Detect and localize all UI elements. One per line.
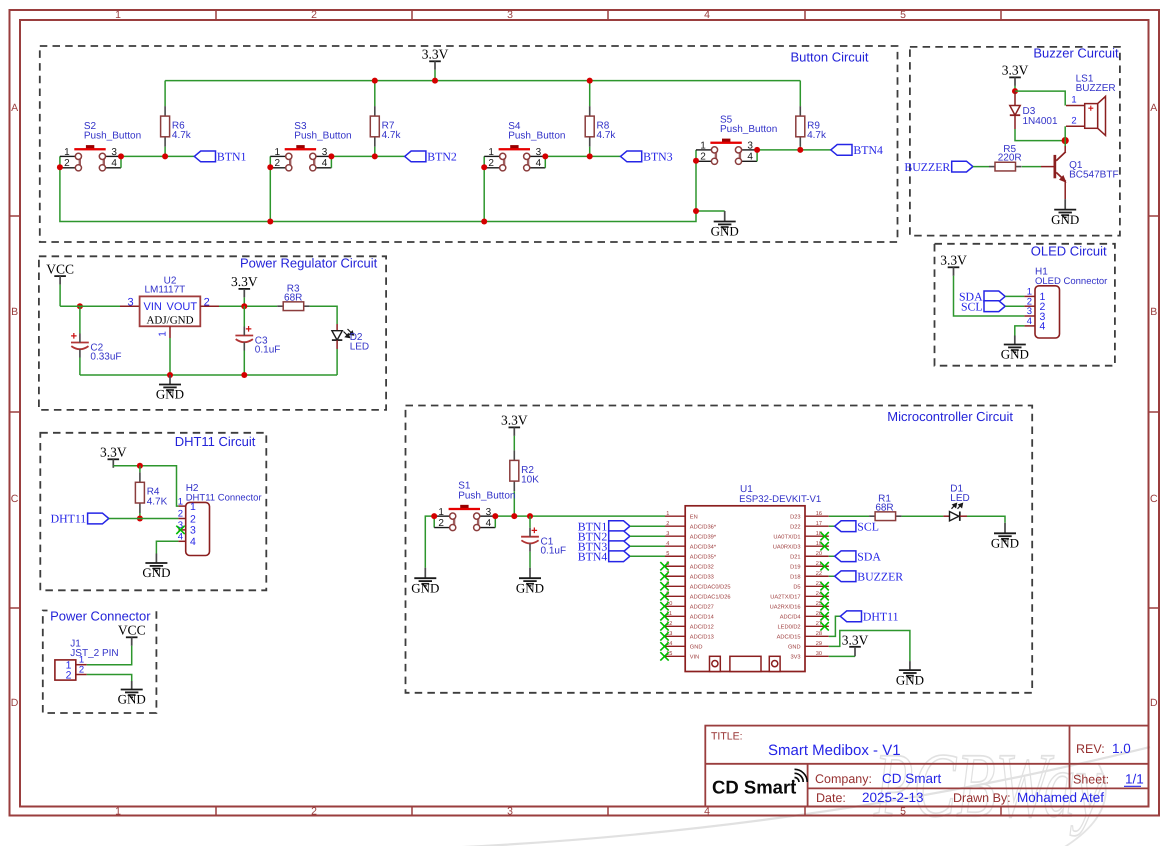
pin 27 LED0/D2 <box>805 625 829 627</box>
svg-text:4: 4 <box>190 536 196 548</box>
svg-text:VCC: VCC <box>46 261 74 276</box>
svg-text:ADC/D32: ADC/D32 <box>690 564 714 571</box>
svg-text:UA0TX/D1: UA0TX/D1 <box>773 534 800 541</box>
pin 14 GND <box>665 645 685 647</box>
net flag DHT11 output <box>829 616 841 636</box>
node R8 bottom <box>587 153 593 159</box>
wire BTN1 to pin 2 <box>630 525 665 527</box>
svg-text:3.3V: 3.3V <box>422 47 449 62</box>
svg-text:4: 4 <box>666 541 669 547</box>
pin 1 EN <box>665 515 685 517</box>
pin 26 ADC/D4 <box>805 615 829 617</box>
svg-text:+: + <box>245 324 251 336</box>
svg-text:ADC/D4: ADC/D4 <box>780 614 801 621</box>
svg-text:2: 2 <box>438 518 444 529</box>
wire EN <box>495 515 665 517</box>
wire pin17 to SCL <box>829 525 835 527</box>
svg-text:Button Circuit: Button Circuit <box>791 50 869 65</box>
svg-text:22: 22 <box>816 571 822 577</box>
ground OLED circuit <box>1014 336 1016 345</box>
no-connect H2 pin3 <box>176 526 184 534</box>
svg-text:DHT11 Connector: DHT11 Connector <box>186 492 262 503</box>
wire D23 to R1 <box>829 515 869 517</box>
wire D3 to junction <box>1015 129 1065 141</box>
wire pin29 GND <box>829 631 910 662</box>
svg-text:4: 4 <box>322 158 328 169</box>
wire H2 pin4 to ground <box>156 541 178 553</box>
node C3 bottom <box>241 372 247 378</box>
svg-text:4: 4 <box>486 518 492 529</box>
speaker LS1 BUZZER <box>1066 105 1085 107</box>
net flag BTN2 <box>405 151 426 162</box>
svg-text:BC547BTF: BC547BTF <box>1069 170 1118 181</box>
svg-text:ADJ/GND: ADJ/GND <box>146 314 193 326</box>
svg-text:1: 1 <box>438 507 444 518</box>
svg-text:3: 3 <box>507 805 513 817</box>
ground regulator circuit <box>169 375 171 385</box>
wire R4 bottom <box>139 513 141 519</box>
svg-text:3: 3 <box>486 507 492 518</box>
svg-text:2: 2 <box>190 513 196 525</box>
Power Regulator Circuit block border <box>39 256 386 410</box>
wire BTN2 to pin 3 <box>630 535 665 537</box>
svg-text:5: 5 <box>666 551 669 557</box>
net flag BUZZER output <box>829 575 835 577</box>
svg-text:D19: D19 <box>790 565 800 571</box>
wire R1 to D1 <box>902 515 944 517</box>
svg-text:ADC/DAC1/D26: ADC/DAC1/D26 <box>690 594 731 601</box>
node R4 bottom <box>137 516 143 522</box>
svg-text:ADC/D36*: ADC/D36* <box>690 524 717 531</box>
svg-text:GND: GND <box>711 224 739 239</box>
push button S1 <box>460 505 468 508</box>
svg-text:ADC/D14: ADC/D14 <box>690 614 714 621</box>
pin 16 D23 <box>805 515 829 517</box>
wire VCC to U2 <box>59 285 61 307</box>
push button S4 <box>510 145 518 148</box>
pin 23 D5 <box>805 585 829 587</box>
svg-text:Push_Button: Push_Button <box>720 124 777 135</box>
pin 25 UA2RX/D16 <box>805 605 829 607</box>
node gnd rail corner <box>693 208 699 214</box>
svg-text:1: 1 <box>190 501 196 513</box>
svg-text:D5: D5 <box>793 585 800 591</box>
node D3 bottom junction <box>1062 137 1069 144</box>
svg-text:BUZZER: BUZZER <box>904 160 950 174</box>
svg-text:10K: 10K <box>521 474 539 485</box>
svg-text:4.7k: 4.7k <box>807 130 827 141</box>
wire ADJ to gnd rail <box>169 338 171 375</box>
wire 3.3V to pin3 <box>954 276 1025 316</box>
svg-text:4: 4 <box>1040 321 1046 333</box>
wire R3 to D2 <box>310 306 337 324</box>
wire S2 pin2 down <box>60 167 696 221</box>
wire R8 to button row <box>589 147 591 157</box>
svg-text:1: 1 <box>700 141 706 152</box>
svg-text:4: 4 <box>178 532 183 543</box>
svg-text:ADC/D12: ADC/D12 <box>690 624 714 631</box>
svg-text:16: 16 <box>816 511 822 517</box>
svg-text:Push_Button: Push_Button <box>294 131 351 142</box>
wire S4 to BTN3 flag <box>545 155 620 157</box>
svg-text:4.7k: 4.7k <box>382 130 402 141</box>
node S4 gnd rail <box>481 219 487 225</box>
svg-text:B: B <box>11 306 18 318</box>
svg-text:D: D <box>11 697 19 709</box>
svg-text:+: + <box>71 331 77 343</box>
wire BTN4 to pin 5 <box>630 555 665 557</box>
svg-text:4: 4 <box>1027 316 1032 327</box>
svg-text:D: D <box>1150 697 1158 709</box>
svg-text:68R: 68R <box>284 292 302 303</box>
node S3 gnd rail <box>267 219 273 225</box>
pin 28 ADC/D15 <box>805 635 829 637</box>
title block border <box>705 726 1148 807</box>
node gnd rail <box>167 372 173 378</box>
microcontroller U1 ESP32-DEVKIT-V1 <box>685 506 805 672</box>
svg-text:68R: 68R <box>875 502 893 513</box>
svg-text:4.7k: 4.7k <box>597 130 617 141</box>
wire D1 to ground <box>967 516 1005 523</box>
svg-text:4: 4 <box>536 158 542 169</box>
resistor R1 <box>869 515 875 517</box>
svg-text:2: 2 <box>666 521 669 527</box>
push button S3 <box>296 145 304 148</box>
wire S4 pin2 down <box>483 167 485 221</box>
wire S1 to ground <box>425 516 434 568</box>
capacitor C1 0.1uF <box>529 516 531 528</box>
transistor Q1 BC547BTF <box>1054 155 1057 178</box>
svg-text:D23: D23 <box>790 515 800 521</box>
svg-text:3.3V: 3.3V <box>231 274 258 289</box>
svg-text:SCL: SCL <box>857 519 879 533</box>
svg-text:DHT11: DHT11 <box>51 512 87 526</box>
svg-text:BTN4: BTN4 <box>853 143 883 157</box>
svg-text:2025-2-13: 2025-2-13 <box>862 790 924 805</box>
node C1 top <box>527 513 533 519</box>
svg-text:SCL: SCL <box>961 299 983 313</box>
wire DHT11 to H2 pin2 <box>109 518 179 520</box>
svg-text:Power Regulator Circuit: Power Regulator Circuit <box>240 255 378 270</box>
pin 15 VIN <box>665 655 685 657</box>
node C2 top <box>77 303 83 309</box>
svg-text:2: 2 <box>204 296 210 308</box>
svg-text:1: 1 <box>115 805 121 817</box>
svg-text:1: 1 <box>64 147 70 158</box>
svg-text:4: 4 <box>747 152 753 163</box>
svg-text:ADC/D39*: ADC/D39* <box>690 534 717 541</box>
svg-text:GND: GND <box>991 536 1019 551</box>
esp32 mounting pad left <box>710 656 721 671</box>
node R2 bottom <box>511 513 517 519</box>
led D1 <box>943 515 949 517</box>
node 3.3V rail junction <box>432 78 438 84</box>
resistor R3 <box>277 305 283 307</box>
node S3 pin3 <box>328 153 334 159</box>
pin 7 ADC/D33 <box>665 575 685 577</box>
pin 6 ADC/D32 <box>665 565 685 567</box>
wire R7 to button row <box>374 147 376 157</box>
wire pin4 to ground <box>1015 326 1025 336</box>
pin 21 D19 <box>805 565 829 567</box>
wire BUZZER to R5 <box>973 166 989 168</box>
svg-text:TITLE:: TITLE: <box>711 731 743 743</box>
svg-text:3.3V: 3.3V <box>940 253 967 268</box>
svg-text:VIN: VIN <box>144 301 162 313</box>
net flag BTN1 <box>194 151 215 162</box>
svg-text:20: 20 <box>816 551 822 557</box>
svg-text:VOUT: VOUT <box>167 301 198 313</box>
node R4 top <box>137 463 143 469</box>
pin 12 ADC/D12 <box>665 625 685 627</box>
ground D1 <box>1004 523 1006 534</box>
wire SDA to pin1 <box>1005 295 1024 297</box>
wire SCL to pin2 <box>1005 305 1024 307</box>
node S2 pin2 <box>57 164 63 170</box>
wire S3 to BTN2 flag <box>331 155 404 157</box>
svg-text:1.0: 1.0 <box>1112 741 1131 756</box>
pin 20 D21 <box>805 555 829 557</box>
pin 3 ADC/D39* <box>665 535 685 537</box>
svg-text:30: 30 <box>816 651 822 657</box>
svg-text:1: 1 <box>488 147 494 158</box>
wire 3.3V to rail <box>434 70 436 81</box>
wire gnd branch <box>696 210 725 212</box>
ground S1 <box>424 568 426 579</box>
svg-text:CD Smart: CD Smart <box>712 777 796 798</box>
svg-text:3: 3 <box>322 147 328 158</box>
svg-text:BTN4: BTN4 <box>578 549 608 563</box>
svg-text:1: 1 <box>178 496 183 507</box>
svg-text:BTN3: BTN3 <box>643 150 673 164</box>
ground buzzer circuit <box>1064 199 1066 210</box>
svg-text:Buzzer Curcuit: Buzzer Curcuit <box>1033 46 1119 61</box>
pin 24 UA2TX/D17 <box>805 595 829 597</box>
node S3 pin2 <box>267 164 273 170</box>
resistor R2 <box>513 450 515 460</box>
ground C1 <box>529 568 531 579</box>
net flag BTN4 input <box>609 551 630 562</box>
resistor R5 <box>989 166 995 168</box>
svg-text:GND: GND <box>118 692 146 707</box>
ground pin29 <box>909 661 911 670</box>
wire speaker pin2 <box>1064 126 1066 140</box>
pin 22 D18 <box>805 575 829 577</box>
node R9 bottom <box>797 147 803 153</box>
svg-text:ADC/D13: ADC/D13 <box>690 634 714 641</box>
node S5 pin2 <box>693 158 699 164</box>
esp32 mounting pad right <box>769 656 780 671</box>
svg-text:BUZZER: BUZZER <box>857 569 903 583</box>
net flag BTN1 input <box>609 521 630 532</box>
wire J1 pin1 to VCC <box>87 646 132 665</box>
push button S5 <box>722 139 730 142</box>
svg-text:OLED Connector: OLED Connector <box>1035 276 1107 287</box>
ground power connector <box>131 681 133 690</box>
Button Circuit block border <box>40 46 898 242</box>
pin 11 ADC/D14 <box>665 615 685 617</box>
wire rail to R9 <box>799 81 801 107</box>
resistor R9 <box>799 106 801 116</box>
OLED Circuit block border <box>935 244 1115 366</box>
svg-text:3: 3 <box>127 296 133 308</box>
svg-text:LM1117T: LM1117T <box>145 285 186 296</box>
node S5 pin3 <box>754 147 760 153</box>
svg-text:GND: GND <box>156 387 184 402</box>
node 3.3V out <box>241 303 247 309</box>
svg-text:1: 1 <box>275 147 281 158</box>
node S4 pin2 <box>481 164 487 170</box>
wire S5 pin2 down <box>695 161 697 211</box>
svg-text:ADC/DAC0/D25: ADC/DAC0/D25 <box>690 584 731 591</box>
svg-text:2: 2 <box>1071 115 1076 126</box>
push button S2 <box>86 145 94 148</box>
svg-text:C: C <box>11 493 19 505</box>
net flag BTN3 input <box>609 541 630 552</box>
svg-text:3: 3 <box>536 147 542 158</box>
wire J1 pin2 to ground <box>87 675 132 682</box>
svg-text:28: 28 <box>816 631 822 637</box>
svg-text:4: 4 <box>111 158 117 169</box>
pin 4 ADC/D34* <box>665 545 685 547</box>
frame row ticks <box>10 215 21 217</box>
resistor R6 <box>164 106 166 116</box>
Microcontroller Circuit block border <box>406 406 1033 693</box>
wire 3.3V to H2 pin1 <box>113 466 178 506</box>
svg-text:Date:: Date: <box>816 791 846 805</box>
ground button circuit <box>724 211 726 222</box>
svg-text:LED: LED <box>950 493 969 504</box>
svg-text:220R: 220R <box>998 153 1022 164</box>
svg-text:A: A <box>1150 102 1157 114</box>
svg-text:4: 4 <box>704 9 710 21</box>
svg-text:Push_Button: Push_Button <box>458 490 515 501</box>
wire rail to R8 <box>589 81 591 107</box>
node S1 pin3 <box>492 513 498 519</box>
svg-text:D21: D21 <box>790 555 800 561</box>
connector H2 DHT11 Connector <box>186 502 210 555</box>
Power Connector block border <box>43 611 157 714</box>
svg-text:2: 2 <box>178 509 183 520</box>
svg-text:GND: GND <box>411 580 439 595</box>
svg-text:C: C <box>1150 493 1158 505</box>
svg-text:ADC/D33: ADC/D33 <box>690 574 714 581</box>
net flag SCL <box>984 301 1005 312</box>
svg-text:17: 17 <box>816 521 822 527</box>
node S2 pin3 <box>118 153 124 159</box>
svg-text:3: 3 <box>507 9 513 21</box>
svg-text:2: 2 <box>275 158 281 169</box>
svg-text:3.3V: 3.3V <box>842 632 869 647</box>
svg-text:3: 3 <box>666 531 669 537</box>
svg-text:2: 2 <box>311 805 317 817</box>
node R8 top <box>587 78 593 84</box>
pin 29 GND <box>805 645 829 647</box>
svg-text:3: 3 <box>111 147 117 158</box>
wire to speaker pin1 <box>1015 91 1065 105</box>
DHT11 Circuit block border <box>40 433 266 591</box>
svg-text:BTN1: BTN1 <box>217 150 247 164</box>
svg-text:Microcontroller Circuit: Microcontroller Circuit <box>887 409 1013 424</box>
net flag BTN4 <box>831 145 852 156</box>
svg-text:ADC/D34*: ADC/D34* <box>690 544 717 551</box>
svg-text:3V3: 3V3 <box>790 655 800 661</box>
connector H1 OLED Connector <box>1035 286 1060 338</box>
pin 13 ADC/D13 <box>665 635 685 637</box>
svg-text:CD Smart: CD Smart <box>882 771 942 786</box>
svg-text:Sheet:: Sheet: <box>1073 773 1109 787</box>
svg-text:BTN2: BTN2 <box>427 150 457 164</box>
node S4 pin3 <box>542 153 548 159</box>
svg-text:DHT11 Circuit: DHT11 Circuit <box>175 434 256 449</box>
wire S2 to BTN1 flag <box>121 155 194 157</box>
wire VIN from VCC rail <box>60 305 120 307</box>
net flag BTN2 input <box>609 531 630 542</box>
svg-text:Company:: Company: <box>815 772 872 786</box>
pin 18 UA0TX/D1 <box>805 535 829 537</box>
svg-text:UA2RX/D16: UA2RX/D16 <box>770 604 801 611</box>
node R7 top <box>372 78 378 84</box>
diode D3 1N4001 <box>1014 91 1016 105</box>
svg-text:ESP32-DEVKIT-V1: ESP32-DEVKIT-V1 <box>739 494 821 505</box>
pin 17 D22 <box>805 525 829 527</box>
pin 8 ADC/DAC0/D25 <box>665 585 685 587</box>
regulator U2 LM1117T <box>120 305 140 307</box>
svg-text:ADC/D27: ADC/D27 <box>690 604 714 611</box>
wire 3.3V to R2 <box>513 436 515 451</box>
PCBWay watermark <box>420 734 1150 851</box>
svg-text:GND: GND <box>516 580 544 595</box>
svg-text:GND: GND <box>142 565 170 580</box>
wire top rail <box>165 80 800 82</box>
svg-text:Drawn By:: Drawn By: <box>953 791 1011 805</box>
svg-text:REV:: REV: <box>1076 742 1105 756</box>
svg-text:1: 1 <box>1071 95 1076 106</box>
wire R4 top <box>139 466 141 473</box>
node S1 pin1 <box>431 513 437 519</box>
node 3.3V buzzer <box>1012 88 1018 94</box>
pin 2 ADC/D36* <box>665 525 685 527</box>
capacitor C3 0.1uF <box>243 306 245 326</box>
svg-text:ADC/D35*: ADC/D35* <box>690 554 717 561</box>
net flag BTN3 <box>621 151 642 162</box>
svg-text:UA2TX/D17: UA2TX/D17 <box>770 594 800 601</box>
svg-text:4.7k: 4.7k <box>172 130 192 141</box>
resistor R7 <box>374 106 376 116</box>
pin 10 ADC/D27 <box>665 605 685 607</box>
ground DHT11 circuit <box>155 554 157 564</box>
svg-text:3: 3 <box>190 525 196 537</box>
wire VOUT to R3 <box>219 305 277 307</box>
svg-text:OLED Circuit: OLED Circuit <box>1031 243 1107 258</box>
svg-text:2: 2 <box>311 9 317 21</box>
svg-text:0.1uF: 0.1uF <box>255 344 281 355</box>
svg-text:LED: LED <box>350 341 369 352</box>
svg-text:+: + <box>531 525 537 537</box>
pin 9 ADC/DAC1/D26 <box>665 595 685 597</box>
svg-text:D22: D22 <box>790 525 800 531</box>
svg-text:2: 2 <box>66 670 72 682</box>
svg-text:0.1uF: 0.1uF <box>541 546 567 557</box>
node R7 bottom <box>372 153 378 159</box>
wire D2 to rail <box>336 349 338 375</box>
wire S5 to BTN4 flag <box>757 149 831 151</box>
net flag SDA output <box>829 555 835 557</box>
pin 30 3V3 <box>805 655 829 657</box>
svg-text:ADC/D15: ADC/D15 <box>777 634 801 641</box>
svg-text:UA0RX/D3: UA0RX/D3 <box>773 544 801 551</box>
svg-text:3.3V: 3.3V <box>100 445 127 460</box>
